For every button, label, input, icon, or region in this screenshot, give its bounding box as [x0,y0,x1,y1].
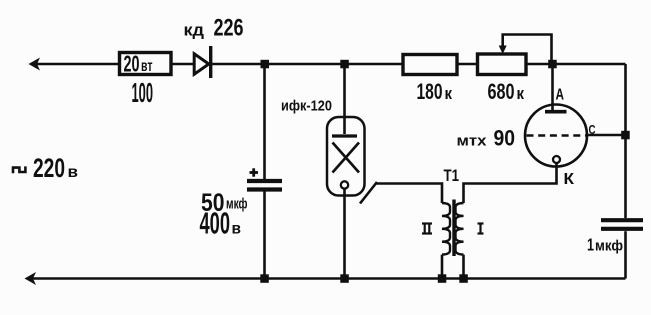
wire winding I top to cathode [464,163,557,204]
label мтх 90 [457,126,516,151]
svg-text:вт: вт [141,58,153,75]
svg-text:90: 90 [494,126,516,151]
svg-text:680: 680 [488,79,515,104]
svg-text:к: к [445,84,453,103]
potentiometer R3 680к [478,54,527,75]
wire grid C to right bus [586,134,622,137]
wiper arrowhead [499,46,507,55]
value label 680к [488,79,525,104]
pin label А [556,87,565,104]
node junction bottom (winding II) [438,274,447,283]
node junction bottom (lamp branch) [340,274,349,283]
svg-text:400: 400 [200,207,231,241]
node junction bottom (C1 branch) [260,274,269,283]
lamp X mark [333,143,360,173]
trigger electrode (diagonal) [360,182,377,204]
transformer T1 winding I [456,203,464,255]
resistor R2 180к [403,55,457,75]
wire top bus [31,63,626,66]
svg-text:Т1: Т1 [444,167,460,185]
node junction bottom (winding I) [459,274,468,283]
svg-text:220: 220 [33,153,65,183]
label ~220в mains [13,153,78,183]
flash lamp VL1 ИФК-120 envelope [327,117,365,196]
wire winding II bottom [441,255,444,279]
diode VD1 КД226 [194,46,211,78]
anode bar [545,110,567,114]
capacitor C1 50мкф 400в electrolytic [247,181,282,190]
wiper arm wire of R3 [503,35,552,61]
arrow bottom-left (mains return) [25,272,37,285]
resistor R1 100 / 20вт [120,53,172,75]
svg-text:С: С [589,122,596,137]
label winding II [422,224,432,234]
label winding I [478,224,484,234]
svg-text:в: в [232,221,242,238]
lamp bottom electrode circle [341,181,348,188]
value label 50мкф [201,189,248,217]
svg-text:к: к [517,84,525,103]
arrow top-left (mains input) [29,58,41,71]
svg-text:ифк-120: ифк-120 [281,98,332,115]
label ИФК-120 [281,98,332,115]
wire C1 branch vertical [263,64,266,279]
wire anode lead [551,64,554,110]
value label 180к [417,79,453,104]
node junction top (anode / wiper) [548,60,557,69]
thyratron V1 МТХ-90 envelope [525,105,587,167]
pin label С [589,122,596,137]
svg-text:мтх: мтх [457,133,488,150]
plus polarity mark [250,168,259,176]
wire winding I bottom [462,255,465,279]
label Т1 [444,167,460,185]
wire bottom bus [27,277,626,280]
capacitor C2 1мкф [601,220,643,229]
transformer T1 winding II [442,203,450,255]
value label 1мкф [587,235,623,255]
node junction top (C1 branch) [261,60,270,69]
wire right vertical bus [624,64,627,279]
node junction top (lamp branch) [340,60,349,69]
node junction right (grid C) [621,131,630,140]
svg-text:226: 226 [214,15,244,42]
wire lamp branch vertical top [343,64,346,117]
value label 20вт inside R1 [124,51,153,77]
wire trigger to winding II [376,184,442,204]
svg-text:100: 100 [132,77,154,108]
pin label К [564,171,575,188]
lamp top electrode [332,117,357,136]
svg-text:А: А [556,87,565,104]
transformer core [452,200,455,257]
svg-text:180: 180 [417,79,443,104]
svg-text:мкф: мкф [595,238,623,255]
value label 400в [200,207,242,241]
value label 100 below R1 [132,77,154,108]
svg-text:К: К [564,171,575,188]
svg-text:1: 1 [587,235,594,255]
label КД 226 [184,15,244,42]
svg-text:20: 20 [124,51,140,77]
svg-text:в: в [68,164,79,181]
wire lamp branch vertical bottom [343,189,346,279]
svg-text:кд: кд [184,22,205,40]
starter grid dashed electrode [527,134,587,137]
cathode electrode circle [553,156,560,163]
